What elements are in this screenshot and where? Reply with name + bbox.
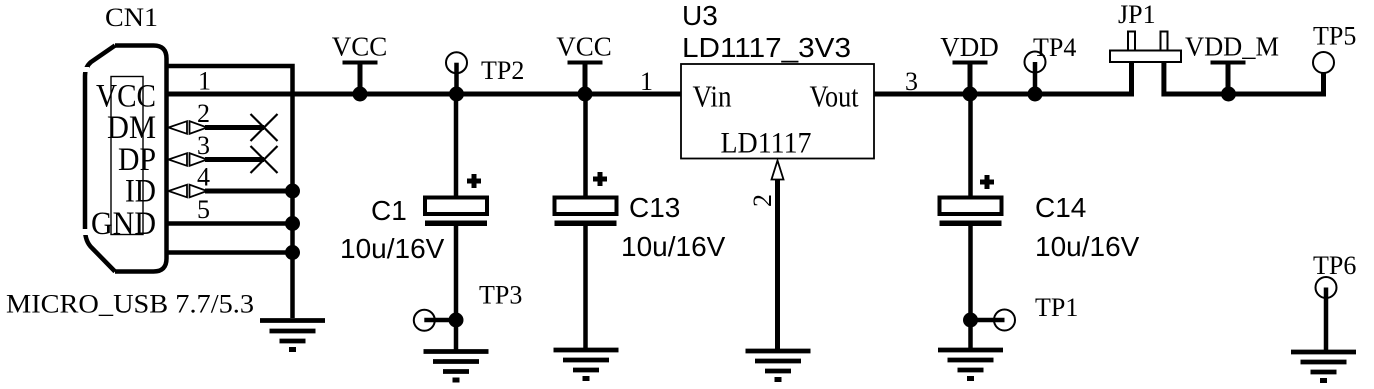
svg-text:TP6: TP6 <box>1313 251 1356 280</box>
connector CN1 outline gaps <box>81 67 89 72</box>
svg-text:TP3: TP3 <box>479 281 522 310</box>
test point TP5 <box>1313 52 1334 73</box>
wire U3 Vout to JP1 <box>874 92 1134 97</box>
test point TP2 <box>446 52 467 73</box>
svg-text:GND: GND <box>91 206 156 242</box>
test point TP6 <box>1316 277 1337 298</box>
wire C1 down to ground <box>454 224 459 351</box>
no-connect X pin3 <box>251 146 278 173</box>
test point TP1 <box>994 310 1015 331</box>
jumper JP1 body <box>1110 51 1181 63</box>
svg-text:Vout: Vout <box>810 79 859 114</box>
junction VCC right <box>578 87 593 102</box>
svg-text:1: 1 <box>640 67 653 96</box>
wire VDD junction down to C14 <box>968 94 973 198</box>
junction pin5 bus <box>285 216 300 231</box>
ground (TP6) <box>1291 352 1356 381</box>
svg-text:MICRO_USB 7.7/5.3: MICRO_USB 7.7/5.3 <box>6 290 254 319</box>
junction TP1 <box>963 313 978 328</box>
test point TP4 <box>1025 52 1046 73</box>
wire VCC junction down to C13 <box>583 94 588 198</box>
wire shield bottom <box>167 250 295 255</box>
ground (U3 pin2) <box>746 351 811 380</box>
junction VCC left <box>353 87 368 102</box>
svg-text:TP2: TP2 <box>481 56 524 85</box>
pin 2 bidirectional arrow <box>169 121 208 134</box>
ground (C1) <box>424 352 489 381</box>
wire pin1 VCC net (CN1 to U3 Vin) <box>167 92 682 97</box>
pin 3 bidirectional arrow <box>169 153 208 166</box>
svg-text:C1: C1 <box>371 195 407 226</box>
wire C13 down to ground <box>583 224 588 350</box>
svg-text:VDD: VDD <box>940 32 999 62</box>
svg-text:ID: ID <box>125 174 156 210</box>
svg-text:TP1: TP1 <box>1035 293 1078 322</box>
capacitor C13 <box>555 172 617 226</box>
junction TP3 <box>449 313 464 328</box>
svg-text:10u/16V: 10u/16V <box>340 233 445 264</box>
wire TP2 junction down to C1 <box>454 94 459 198</box>
ground (C14) <box>938 350 1003 379</box>
svg-text:LD1117: LD1117 <box>721 127 812 160</box>
svg-text:U3: U3 <box>682 0 718 31</box>
wire C14 down to ground <box>968 224 973 350</box>
svg-text:TP5: TP5 <box>1313 22 1356 51</box>
pin 4 bidirectional arrow <box>169 185 208 198</box>
power symbol VCC (left) <box>343 63 378 95</box>
capacitor C1 <box>425 174 487 226</box>
svg-text:10u/16V: 10u/16V <box>1035 231 1140 262</box>
svg-text:LD1117_3V3: LD1117_3V3 <box>682 32 851 63</box>
wire pin2 stub <box>205 125 264 130</box>
svg-text:C14: C14 <box>1035 192 1086 223</box>
junction VDD_M <box>1221 87 1236 102</box>
test point TP3 <box>414 310 435 331</box>
svg-text:JP1: JP1 <box>1118 0 1156 29</box>
wire pin5 GND <box>167 221 295 226</box>
wire pin3 stub <box>205 157 264 162</box>
svg-text:1: 1 <box>198 67 211 96</box>
svg-text:DM: DM <box>107 110 156 146</box>
svg-text:C13: C13 <box>629 192 680 223</box>
power symbol VDD <box>953 63 988 95</box>
svg-text:10u/16V: 10u/16V <box>621 231 726 262</box>
junction pin4 bus <box>285 184 300 199</box>
U3 pin 2 arrow <box>772 161 784 180</box>
wire U3 pin2 to ground <box>775 180 780 351</box>
wire JP1 right leg <box>1161 62 1166 97</box>
connector CN1 body outline <box>85 46 167 272</box>
wire JP1 left leg <box>1129 62 1134 97</box>
power symbol VCC (right) <box>568 63 603 95</box>
ground (C13) <box>554 350 619 379</box>
svg-text:TP4: TP4 <box>1033 33 1076 62</box>
svg-text:2: 2 <box>748 194 777 207</box>
junction shield bottom bus <box>285 245 300 260</box>
junction TP2 <box>449 87 464 102</box>
wire pin4 to ground bus <box>205 189 294 194</box>
op-amp U3 body box <box>681 64 874 159</box>
svg-text:VCC: VCC <box>556 32 612 62</box>
jumper JP1 pin posts <box>1128 32 1135 51</box>
capacitor C14 <box>940 175 1002 226</box>
wire shield top <box>167 66 293 318</box>
svg-text:5: 5 <box>197 195 210 224</box>
ground (CN1 shield) <box>260 321 325 350</box>
svg-text:VCC: VCC <box>332 32 388 62</box>
svg-text:VDD_M: VDD_M <box>1185 32 1279 62</box>
junction VDD <box>963 87 978 102</box>
power symbol VDD_M <box>1211 63 1246 95</box>
no-connect X pin2 <box>251 114 278 141</box>
svg-text:Vin: Vin <box>693 79 732 114</box>
junction TP4 <box>1028 87 1043 102</box>
wire JP1 to TP5 <box>1162 63 1324 95</box>
svg-text:CN1: CN1 <box>105 3 158 32</box>
connector CN1 inner pin-name box <box>111 77 143 235</box>
